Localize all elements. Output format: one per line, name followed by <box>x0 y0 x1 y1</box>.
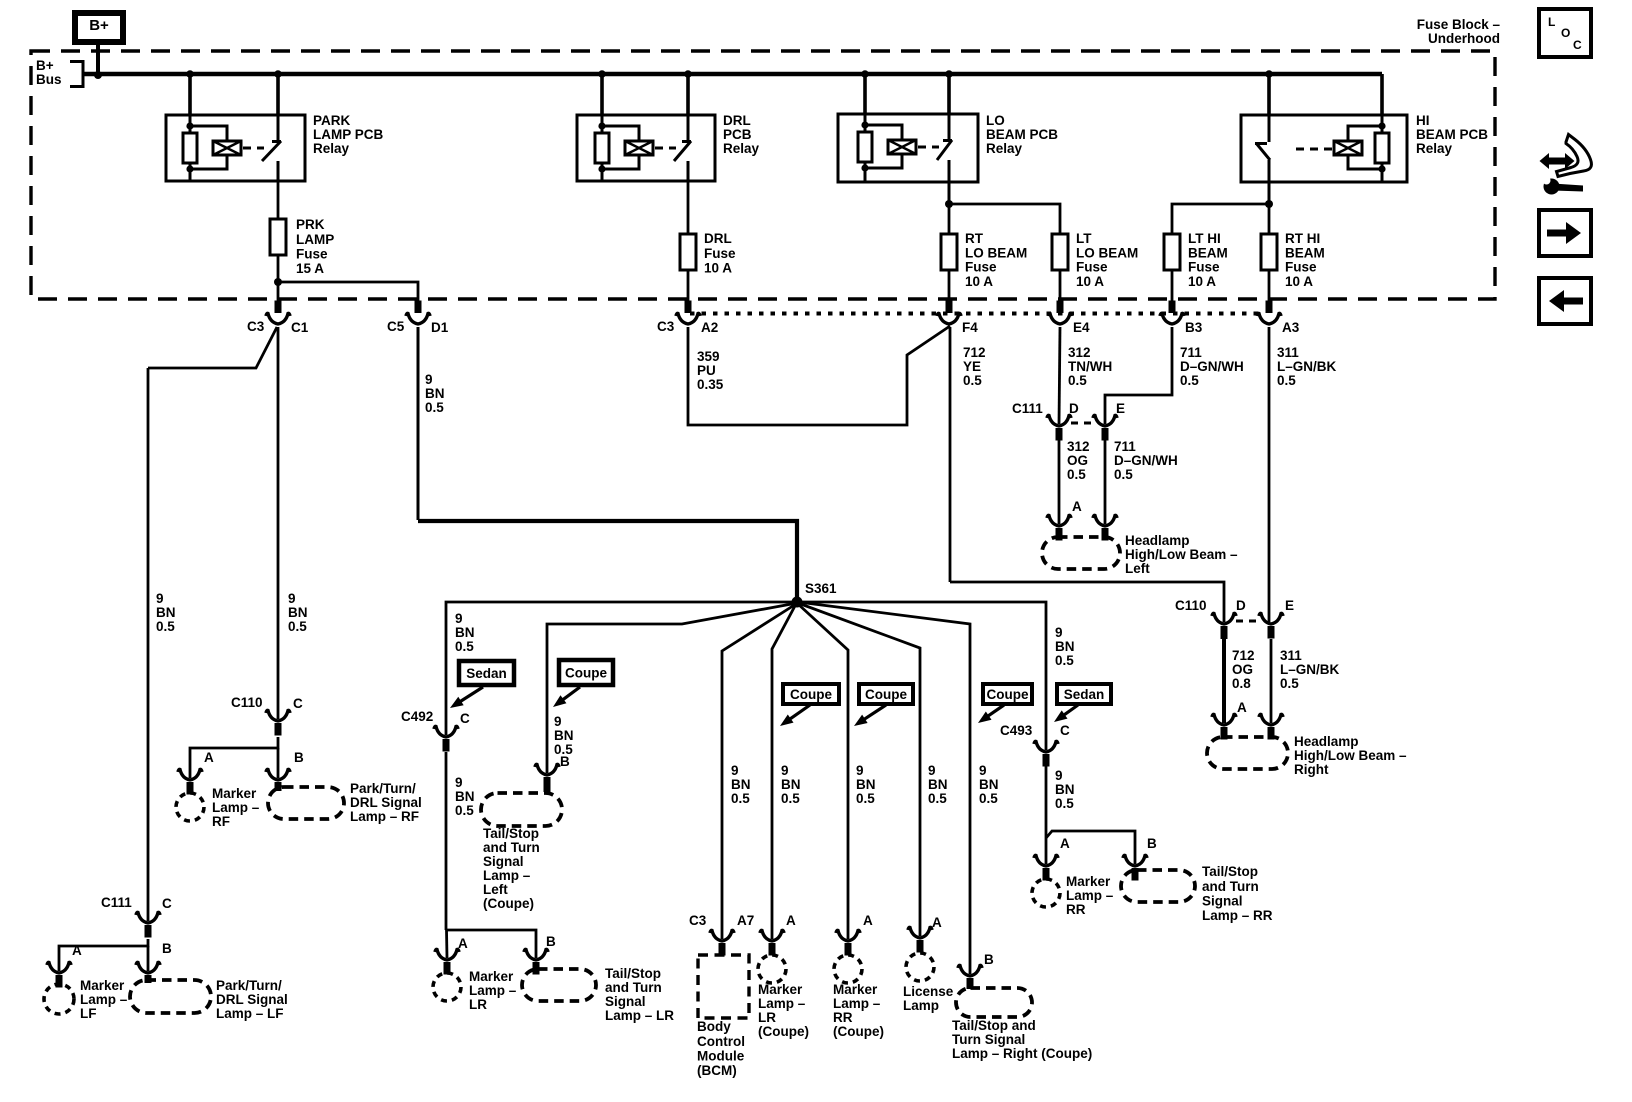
connector marker lamp LF pin A <box>47 962 71 973</box>
svg-text:0.5: 0.5 <box>928 791 947 806</box>
svg-text:D1: D1 <box>431 320 449 335</box>
svg-text:9: 9 <box>731 763 739 778</box>
svg-text:Lamp –: Lamp – <box>469 983 517 998</box>
svg-text:BN: BN <box>856 777 876 792</box>
fuse F4 LT LO BEAM 10A <box>1052 234 1068 270</box>
wire 9 BN left front feed <box>147 368 150 921</box>
svg-text:BN: BN <box>1055 782 1075 797</box>
svg-text:711: 711 <box>1180 345 1202 360</box>
wire bus drop to lo beam relay switch <box>947 74 951 114</box>
svg-text:Park/Turn/: Park/Turn/ <box>216 978 282 993</box>
svg-text:BN: BN <box>731 777 751 792</box>
connector marker lamp LR pin A <box>435 949 459 960</box>
fuse F1 PRK LAMP 15A <box>270 219 286 255</box>
svg-text:C492: C492 <box>401 709 433 724</box>
svg-text:RR: RR <box>833 1010 853 1025</box>
wire LT LO fuse to connector <box>1059 270 1062 302</box>
svg-text:Tail/Stop: Tail/Stop <box>605 966 661 981</box>
svg-text:Lamp –: Lamp – <box>483 868 531 883</box>
relay K1 PARK LAMP PCB Relay <box>166 115 305 181</box>
wire to front right lamps split <box>190 737 278 778</box>
svg-text:RT HI: RT HI <box>1285 231 1320 246</box>
wire 9 BN C1 to C110 <box>277 327 280 719</box>
svg-text:Underhood: Underhood <box>1428 31 1500 46</box>
svg-text:D–GN/WH: D–GN/WH <box>1180 359 1244 374</box>
wire 712 YE from F4 <box>949 327 952 582</box>
svg-text:(Coupe): (Coupe) <box>483 896 534 911</box>
svg-text:712: 712 <box>963 345 986 360</box>
svg-text:RT: RT <box>965 231 984 246</box>
svg-text:A7: A7 <box>737 913 754 928</box>
wire bus drop to park relay switch <box>276 74 280 115</box>
svg-text:311: 311 <box>1277 345 1299 360</box>
svg-text:15 A: 15 A <box>296 261 324 276</box>
svg-text:Coupe: Coupe <box>790 687 832 702</box>
node bus junction <box>945 70 953 78</box>
svg-text:0.5: 0.5 <box>455 639 474 654</box>
lamp marker lamp RR coupe <box>834 955 862 983</box>
svg-text:Tail/Stop: Tail/Stop <box>1202 864 1258 879</box>
svg-text:B: B <box>162 941 172 956</box>
connector tail lamp LR pin B <box>524 949 548 960</box>
svg-text:LF: LF <box>80 1006 97 1021</box>
svg-text:0.5: 0.5 <box>288 619 307 634</box>
svg-text:LR: LR <box>758 1010 776 1025</box>
fuse F3 RT LO BEAM 10A <box>941 234 957 270</box>
svg-text:YE: YE <box>963 359 981 374</box>
svg-text:A: A <box>1237 700 1247 715</box>
svg-text:0.5: 0.5 <box>1068 373 1087 388</box>
dashed link C111 D-E <box>1071 422 1094 425</box>
svg-text:(Coupe): (Coupe) <box>833 1024 884 1039</box>
svg-text:A2: A2 <box>701 320 718 335</box>
svg-text:Left: Left <box>1125 561 1150 576</box>
fuse F5 LT HI BEAM 10A <box>1164 234 1180 270</box>
svg-text:C1: C1 <box>291 320 309 335</box>
svg-text:Marker: Marker <box>1066 874 1111 889</box>
svg-text:10 A: 10 A <box>1188 274 1216 289</box>
wire bus drop to drl relay switch <box>686 74 690 115</box>
svg-text:BN: BN <box>288 605 308 620</box>
fuse F6 RT HI BEAM 10A <box>1261 234 1277 270</box>
svg-text:B3: B3 <box>1185 320 1203 335</box>
connector headlamp right pin E <box>1259 714 1283 725</box>
svg-text:LO BEAM: LO BEAM <box>1076 245 1138 260</box>
wire to marker RR pin A <box>1045 838 1048 864</box>
svg-text:Sedan: Sedan <box>466 666 507 681</box>
wire junction to LT LO BEAM fuse <box>949 204 1060 234</box>
svg-text:LAMP PCB: LAMP PCB <box>313 127 384 142</box>
lamp marker lamp RR <box>1032 879 1060 907</box>
svg-text:C: C <box>293 696 303 711</box>
svg-text:E4: E4 <box>1073 320 1090 335</box>
svg-text:DRL Signal: DRL Signal <box>216 992 288 1007</box>
wire 711 D-GN/WH to headlamp left <box>1104 440 1107 524</box>
svg-text:Lamp –: Lamp – <box>833 996 881 1011</box>
connector license lamp pin A <box>908 927 932 938</box>
svg-text:High/Low Beam –: High/Low Beam – <box>1125 547 1238 562</box>
svg-text:Relay: Relay <box>986 141 1023 156</box>
svg-text:0.5: 0.5 <box>156 619 175 634</box>
B+ Bus label and bracket <box>70 60 83 63</box>
wire 9 BN C492 to rear lamps <box>445 752 448 930</box>
svg-text:and Turn: and Turn <box>605 980 662 995</box>
svg-text:O: O <box>1561 26 1570 40</box>
relay K2 DRL PCB Relay <box>577 115 715 181</box>
lamp headlamp high/low beam right <box>1207 737 1288 769</box>
svg-text:Relay: Relay <box>723 141 760 156</box>
wire LT HI fuse to connector <box>1171 270 1174 302</box>
svg-text:Fuse: Fuse <box>1285 260 1317 275</box>
fuse block underhood dashed boundary <box>31 51 1495 299</box>
svg-text:Lamp – Right (Coupe): Lamp – Right (Coupe) <box>952 1046 1092 1061</box>
svg-text:License: License <box>903 984 954 999</box>
node B+ bus junction <box>94 71 102 79</box>
lamp marker lamp LR <box>433 973 461 1001</box>
svg-text:312: 312 <box>1067 439 1090 454</box>
wire S361 to C493 sedan branch <box>797 602 1046 750</box>
svg-text:Module: Module <box>697 1048 745 1063</box>
svg-text:10 A: 10 A <box>1076 274 1104 289</box>
svg-text:9: 9 <box>1055 625 1063 640</box>
svg-text:0.5: 0.5 <box>425 400 444 415</box>
icon LOC box <box>1539 9 1591 57</box>
wire 712 YE to C110 D <box>950 582 1224 622</box>
wire 9 BN C3 diagonal branch <box>148 327 277 368</box>
svg-text:C3: C3 <box>657 319 675 334</box>
wire S361 to marker lamp LR coupe <box>772 604 796 939</box>
svg-text:A: A <box>1072 499 1082 514</box>
svg-text:9: 9 <box>425 372 433 387</box>
svg-text:Lamp: Lamp <box>903 998 939 1013</box>
wire bus drop to drl relay coil <box>600 74 604 115</box>
svg-text:0.5: 0.5 <box>963 373 982 388</box>
svg-text:0.5: 0.5 <box>731 791 750 806</box>
wire RT LO fuse to connector <box>948 270 951 302</box>
svg-text:A: A <box>786 913 796 928</box>
wire RT HI fuse to connector <box>1268 270 1271 302</box>
connector pin F4 <box>946 301 953 314</box>
module body control module BCM <box>698 955 749 1018</box>
svg-text:Right: Right <box>1294 762 1329 777</box>
wire to front left lamps split <box>59 939 148 971</box>
svg-text:RR: RR <box>1066 902 1086 917</box>
fuse F2 DRL 10A <box>680 234 696 270</box>
svg-text:DRL Signal: DRL Signal <box>350 795 422 810</box>
svg-text:Sedan: Sedan <box>1064 687 1105 702</box>
wire 359 PU from A2 <box>688 326 950 425</box>
svg-text:Fuse: Fuse <box>704 246 736 261</box>
svg-text:9: 9 <box>781 763 789 778</box>
svg-text:OG: OG <box>1232 662 1253 677</box>
wire S361 to C492 sedan branch <box>446 602 797 735</box>
svg-text:0.5: 0.5 <box>1277 373 1296 388</box>
svg-text:Marker: Marker <box>469 969 514 984</box>
wire DRL fuse to connector <box>687 270 690 302</box>
node bus junction <box>861 70 869 78</box>
svg-text:0.5: 0.5 <box>1067 467 1086 482</box>
wire PRK fuse to junction <box>277 255 280 302</box>
icon next arrow box <box>1539 210 1591 256</box>
wire 312 OG to headlamp left <box>1058 440 1061 524</box>
svg-text:Turn Signal: Turn Signal <box>952 1032 1025 1047</box>
wire S361 to license lamp <box>798 603 920 936</box>
wire S361 to marker lamp RR coupe <box>798 604 848 939</box>
node PRK output junction <box>274 278 282 286</box>
svg-text:BEAM PCB: BEAM PCB <box>986 127 1058 142</box>
svg-text:Tail/Stop: Tail/Stop <box>483 826 539 841</box>
svg-text:9: 9 <box>455 611 463 626</box>
wire to park/turn RF pin B <box>277 748 280 778</box>
wire bus drop to park relay coil <box>188 74 192 115</box>
svg-text:C3: C3 <box>247 319 265 334</box>
svg-text:9: 9 <box>856 763 864 778</box>
tag Sedan (C492) <box>459 661 514 685</box>
lamp tail/stop turn signal right coupe <box>956 988 1032 1017</box>
svg-text:LO BEAM: LO BEAM <box>965 245 1027 260</box>
svg-text:BN: BN <box>455 625 475 640</box>
svg-text:C110: C110 <box>1175 598 1207 613</box>
connector pin D1 <box>415 301 422 314</box>
svg-text:Tail/Stop and: Tail/Stop and <box>952 1018 1036 1033</box>
svg-text:312: 312 <box>1068 345 1091 360</box>
svg-text:PRK: PRK <box>296 217 325 232</box>
wire junction to LT HI BEAM fuse <box>1172 204 1269 234</box>
svg-text:10 A: 10 A <box>965 274 993 289</box>
svg-text:DRL: DRL <box>723 113 751 128</box>
svg-text:and Turn: and Turn <box>1202 879 1259 894</box>
wire to park/turn LF pin B <box>147 946 150 971</box>
svg-text:PARK: PARK <box>313 113 351 128</box>
svg-text:RF: RF <box>212 814 230 829</box>
svg-text:Lamp – RF: Lamp – RF <box>350 809 419 824</box>
svg-text:Left: Left <box>483 882 508 897</box>
svg-text:9: 9 <box>288 591 296 606</box>
svg-text:9: 9 <box>928 763 936 778</box>
svg-text:(Coupe): (Coupe) <box>758 1024 809 1039</box>
svg-text:359: 359 <box>697 349 720 364</box>
svg-text:0.5: 0.5 <box>1114 467 1133 482</box>
svg-text:C5: C5 <box>387 319 405 334</box>
svg-text:Lamp – LR: Lamp – LR <box>605 1008 674 1023</box>
connector headlamp left pin A <box>1047 515 1071 526</box>
svg-text:Park/Turn/: Park/Turn/ <box>350 781 416 796</box>
lamp tail/stop turn signal LR <box>522 969 596 1001</box>
svg-text:10 A: 10 A <box>704 260 732 275</box>
svg-text:L–GN/BK: L–GN/BK <box>1277 359 1337 374</box>
svg-text:BN: BN <box>979 777 999 792</box>
connector headlamp left pin E <box>1093 515 1117 526</box>
svg-text:C493: C493 <box>1000 723 1033 738</box>
lamp marker lamp LF <box>44 984 74 1014</box>
svg-text:Marker: Marker <box>758 982 803 997</box>
svg-text:Lamp – LF: Lamp – LF <box>216 1006 284 1021</box>
connector tail lamp right coupe pin B <box>958 965 982 976</box>
svg-text:C: C <box>460 711 470 726</box>
B+ terminal box <box>75 13 123 42</box>
svg-text:LR: LR <box>469 997 487 1012</box>
svg-text:Fuse Block –: Fuse Block – <box>1417 17 1501 32</box>
wire junction to RT HI BEAM fuse <box>1268 204 1271 234</box>
svg-text:E: E <box>1285 598 1294 613</box>
svg-text:(BCM): (BCM) <box>697 1063 737 1078</box>
wire split to marker RR / tail RR <box>1046 831 1135 864</box>
svg-text:Fuse: Fuse <box>296 246 328 261</box>
svg-text:PU: PU <box>697 363 716 378</box>
arrow coupe to wire <box>789 705 810 720</box>
svg-text:Coupe: Coupe <box>865 687 907 702</box>
svg-text:Fuse: Fuse <box>965 260 997 275</box>
node bus junction <box>186 70 194 78</box>
svg-text:Marker: Marker <box>80 978 125 993</box>
svg-text:Lamp –: Lamp – <box>1066 888 1114 903</box>
lamp park/turn DRL signal lamp LF <box>130 980 211 1013</box>
svg-text:BEAM PCB: BEAM PCB <box>1416 127 1488 142</box>
svg-text:B: B <box>546 934 556 949</box>
svg-text:C111: C111 <box>101 895 132 910</box>
svg-text:S361: S361 <box>805 581 837 596</box>
svg-text:BN: BN <box>554 728 574 743</box>
wire S361 to tail lamp left coupe <box>547 603 797 773</box>
connector pin E4 <box>1057 301 1064 314</box>
wire 712 OG to headlamp right <box>1222 639 1226 723</box>
svg-text:LO: LO <box>986 113 1005 128</box>
dashed link C110 D-E <box>1236 620 1259 623</box>
svg-text:Signal: Signal <box>1202 893 1243 908</box>
node bus junction <box>598 70 606 78</box>
wire 312 TN/WH from E4 <box>1059 327 1060 424</box>
svg-text:0.5: 0.5 <box>455 803 474 818</box>
arrow coupe to wire <box>987 705 1004 717</box>
svg-text:BEAM: BEAM <box>1285 245 1325 260</box>
svg-text:Fuse: Fuse <box>1188 260 1220 275</box>
wire S361 to tail lamp right coupe <box>798 602 970 974</box>
svg-text:0.5: 0.5 <box>781 791 800 806</box>
wire park relay to PRK LAMP fuse <box>277 181 280 219</box>
svg-text:9: 9 <box>979 763 987 778</box>
connector park/turn lamp LF pin B <box>136 962 160 973</box>
splice S361 <box>792 597 803 608</box>
connector C111 pin E <box>1093 415 1117 426</box>
svg-text:0.35: 0.35 <box>697 377 724 392</box>
svg-text:0.5: 0.5 <box>1180 373 1199 388</box>
node bus junction <box>274 70 282 78</box>
tag Coupe (marker RR) <box>859 684 913 704</box>
svg-text:D: D <box>1236 598 1246 613</box>
svg-text:Relay: Relay <box>1416 141 1453 156</box>
wire bus drop to hi beam relay coil <box>1380 74 1384 115</box>
svg-text:Body: Body <box>697 1019 731 1034</box>
svg-text:B: B <box>560 754 570 769</box>
svg-text:LAMP: LAMP <box>296 232 334 247</box>
connector pin C1 <box>275 301 282 314</box>
svg-text:Headlamp: Headlamp <box>1294 734 1359 749</box>
connector park/turn lamp RF pin B <box>266 769 290 780</box>
svg-text:Headlamp: Headlamp <box>1125 533 1190 548</box>
svg-text:A: A <box>204 750 214 765</box>
svg-text:LT HI: LT HI <box>1188 231 1221 246</box>
svg-text:B: B <box>1147 836 1157 851</box>
lamp marker lamp LR coupe <box>758 955 786 983</box>
svg-text:HI: HI <box>1416 113 1430 128</box>
connector marker lamp RR pin A <box>1034 855 1058 866</box>
node bus junction <box>684 70 692 78</box>
svg-text:Lamp –: Lamp – <box>80 992 128 1007</box>
wire drl relay to DRL fuse <box>687 181 690 234</box>
wire B+ bus bar <box>83 72 1382 77</box>
svg-text:E: E <box>1116 401 1125 416</box>
tag Coupe (tail left) <box>559 660 613 685</box>
wire 311 L-GN/BK from A3 <box>1268 327 1271 622</box>
wire lo relay to junction <box>948 182 951 204</box>
wire 711 D-GN/WH from B3 <box>1105 327 1172 424</box>
svg-text:Signal: Signal <box>483 854 524 869</box>
lamp park/turn DRL signal lamp RF <box>268 787 344 819</box>
connector pin A3 <box>1266 301 1273 314</box>
wire bus drop to lo beam relay coil <box>863 74 867 114</box>
connector marker lamp RR coupe pin A <box>836 930 860 941</box>
lamp marker lamp RF <box>176 793 204 821</box>
svg-text:OG: OG <box>1067 453 1088 468</box>
icon back arrow box <box>1539 278 1591 324</box>
lamp tail/stop turn signal RR <box>1121 870 1195 902</box>
svg-text:Signal: Signal <box>605 994 646 1009</box>
node bus junction <box>1265 70 1273 78</box>
connector marker lamp RF pin A <box>178 769 202 780</box>
connector pin B3 <box>1169 301 1176 314</box>
svg-text:C: C <box>1573 38 1582 52</box>
node lo beam output junction <box>945 200 953 208</box>
svg-text:C: C <box>1060 723 1070 738</box>
wire split to marker LR / tail LR <box>446 930 536 958</box>
wire bus drop to hi beam relay switch <box>1267 74 1271 115</box>
arrow sedan to C492 <box>459 687 483 702</box>
svg-text:712: 712 <box>1232 648 1255 663</box>
arrow coupe to wire <box>863 705 886 720</box>
svg-text:L–GN/BK: L–GN/BK <box>1280 662 1340 677</box>
dotted connector interface line <box>690 312 1258 316</box>
arrow coupe to wire <box>562 687 580 700</box>
wire B+ drop to bus <box>96 42 100 75</box>
svg-text:0.8: 0.8 <box>1232 676 1251 691</box>
wire junction to RT LO BEAM fuse <box>948 204 951 234</box>
svg-text:D–GN/WH: D–GN/WH <box>1114 453 1178 468</box>
svg-text:BN: BN <box>781 777 801 792</box>
svg-text:C110: C110 <box>231 695 263 710</box>
svg-text:B: B <box>294 750 304 765</box>
svg-text:Marker: Marker <box>833 982 878 997</box>
connector marker lamp LR coupe pin A <box>760 930 784 941</box>
svg-text:C: C <box>162 896 172 911</box>
tag Sedan (C493) <box>1057 684 1111 704</box>
svg-text:BN: BN <box>425 386 445 401</box>
svg-text:711: 711 <box>1114 439 1136 454</box>
connector tail lamp left coupe pin B <box>535 764 559 775</box>
tag Coupe (marker LR) <box>783 684 839 704</box>
lamp headlamp high/low beam left <box>1042 537 1120 569</box>
svg-text:LT: LT <box>1076 231 1092 246</box>
relay K3 LO BEAM PCB Relay <box>838 114 978 182</box>
svg-text:0.5: 0.5 <box>856 791 875 806</box>
svg-text:Fuse: Fuse <box>1076 260 1108 275</box>
connector tail lamp RR pin B <box>1123 855 1147 866</box>
svg-text:B+: B+ <box>89 17 109 34</box>
relay K4 HI BEAM PCB Relay <box>1241 115 1407 182</box>
svg-text:Coupe: Coupe <box>565 666 607 681</box>
tag Coupe (tail right) <box>983 684 1032 704</box>
icon related-diagram navigation <box>1540 135 1592 195</box>
svg-text:BN: BN <box>1055 639 1075 654</box>
